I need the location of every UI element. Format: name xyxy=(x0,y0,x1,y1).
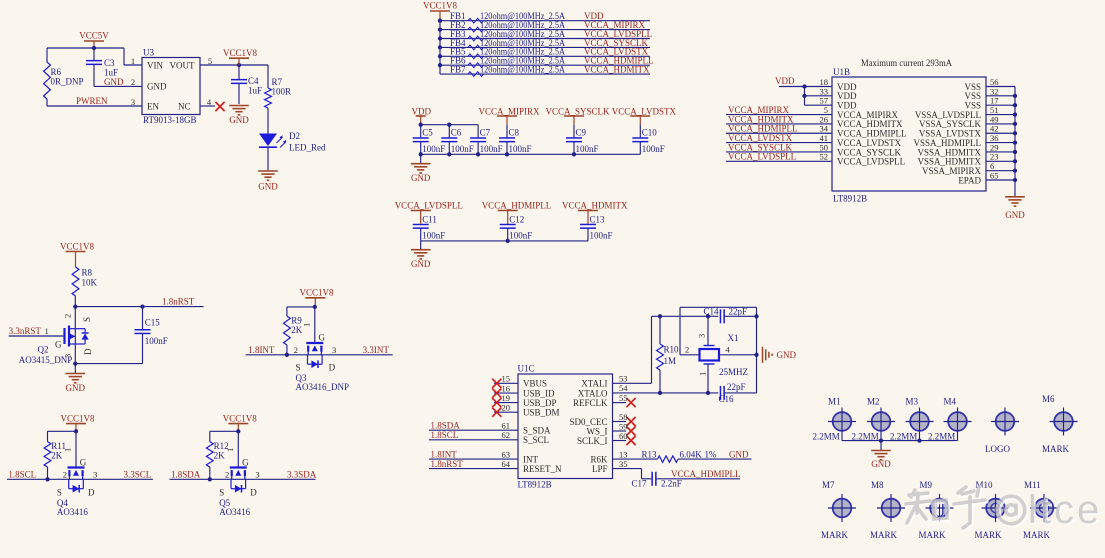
svg-text:G: G xyxy=(55,340,62,350)
resistor R7 xyxy=(267,65,269,88)
capacitor C12 100nF xyxy=(500,224,516,228)
svg-text:1.8SCL: 1.8SCL xyxy=(431,430,459,440)
crystal X1 25MHZ xyxy=(707,316,709,345)
wire net 3.3SCL xyxy=(83,478,153,480)
svg-text:S: S xyxy=(57,488,62,498)
pin 16 USB_ID no-connect xyxy=(494,392,518,394)
svg-text:GND: GND xyxy=(411,259,431,269)
svg-text:C4: C4 xyxy=(248,76,259,86)
svg-text:5: 5 xyxy=(208,56,212,66)
svg-text:53: 53 xyxy=(619,374,628,384)
svg-text:C15: C15 xyxy=(145,317,161,327)
capacitor C17 2.2nF on LPF xyxy=(613,468,642,470)
wire mounting hole ground tie xyxy=(842,440,958,442)
capacitor C16 22pF xyxy=(720,386,724,400)
svg-text:Maximum current 293mA: Maximum current 293mA xyxy=(861,59,952,69)
svg-text:VCC1V8: VCC1V8 xyxy=(223,413,258,423)
svg-text:VCC1V8: VCC1V8 xyxy=(223,48,258,58)
fiducial M6 MARK xyxy=(1054,412,1073,431)
svg-text:C13: C13 xyxy=(590,214,606,224)
svg-text:M4: M4 xyxy=(944,397,957,407)
svg-text:D: D xyxy=(329,363,336,373)
svg-text:LED_Red: LED_Red xyxy=(289,143,326,153)
svg-text:LPF: LPF xyxy=(592,464,608,474)
svg-text:22pF: 22pF xyxy=(729,307,748,317)
svg-text:M9: M9 xyxy=(920,480,933,490)
ground under Q2 xyxy=(74,364,76,374)
svg-text:R6K: R6K xyxy=(590,454,608,464)
svg-text:VCCA_SYSCLK: VCCA_SYSCLK xyxy=(546,107,611,117)
power port VCC1V8 over R8 xyxy=(60,241,95,251)
capacitor C8 100nF xyxy=(499,138,515,142)
svg-text:C7: C7 xyxy=(480,127,491,137)
svg-text:2: 2 xyxy=(225,470,229,480)
wire net 1.8SDA to U1C pin 61 xyxy=(429,429,518,431)
power port VDD over C5 xyxy=(412,107,432,117)
ground under C4 xyxy=(229,106,249,126)
power port VCCA_MIPIRX xyxy=(479,107,541,117)
ground row2 xyxy=(420,241,422,250)
svg-text:G: G xyxy=(242,457,249,467)
svg-text:54: 54 xyxy=(619,383,628,393)
svg-text:MARK: MARK xyxy=(919,530,947,540)
svg-text:VCCA_LVDSPLL: VCCA_LVDSPLL xyxy=(728,152,796,162)
wire stem C7 xyxy=(477,125,479,138)
wire stem C6 xyxy=(448,125,450,138)
ferrite bead FB1 row xyxy=(440,20,650,22)
svg-text:15: 15 xyxy=(502,374,511,384)
svg-text:2.2nF: 2.2nF xyxy=(661,479,682,489)
svg-text:AO3416: AO3416 xyxy=(57,507,88,517)
ground under D2 xyxy=(258,171,278,192)
wire bottom rail row1 xyxy=(421,153,641,155)
svg-text:S: S xyxy=(82,317,92,322)
resistor R11 2K xyxy=(44,442,51,467)
op-amp U3 RT9013-18GB body xyxy=(142,58,200,115)
svg-text:2K: 2K xyxy=(51,451,63,461)
svg-text:USB_DM: USB_DM xyxy=(523,408,560,418)
svg-text:100nF: 100nF xyxy=(422,231,445,241)
svg-text:MARK: MARK xyxy=(975,530,1003,540)
mounting hole M2 2.2MM xyxy=(872,412,891,431)
svg-text:M6: M6 xyxy=(1042,394,1055,404)
svg-text:S: S xyxy=(296,363,301,373)
svg-text:GND: GND xyxy=(777,350,797,360)
svg-text:3: 3 xyxy=(697,334,707,338)
svg-text:C5: C5 xyxy=(422,127,433,137)
svg-text:2.2MM: 2.2MM xyxy=(813,432,840,442)
svg-text:3.3nRST: 3.3nRST xyxy=(9,326,42,336)
pin 58 no-connect xyxy=(613,421,627,423)
svg-text:R8: R8 xyxy=(82,268,93,278)
svg-text:100nF: 100nF xyxy=(576,144,599,154)
fiducial M8 MARK xyxy=(882,499,901,518)
IC U1B LT8912B body xyxy=(832,77,986,191)
svg-text:Q2: Q2 xyxy=(38,345,49,355)
svg-text:GND: GND xyxy=(1005,210,1025,220)
svg-text:VIN: VIN xyxy=(147,60,163,70)
svg-text:GND: GND xyxy=(147,82,167,92)
svg-text:3: 3 xyxy=(255,470,259,480)
power port VCCA_LVDSPLL xyxy=(395,201,463,211)
svg-text:VBUS: VBUS xyxy=(523,379,547,389)
svg-text:2K: 2K xyxy=(214,451,226,461)
svg-text:100nF: 100nF xyxy=(642,144,665,154)
svg-text:AO3416: AO3416 xyxy=(219,507,250,517)
ferrite bead FB4 row xyxy=(440,46,650,48)
svg-text:USB_DP: USB_DP xyxy=(523,398,557,408)
svg-text:VCCA_LVDSPLL: VCCA_LVDSPLL xyxy=(395,201,463,211)
wire bottom rail row2 xyxy=(421,240,588,242)
pin 15 VBUS no-connect xyxy=(494,382,518,384)
capacitor C11 100nF xyxy=(413,224,429,228)
svg-text:2.2MM: 2.2MM xyxy=(928,432,955,442)
capacitor C15 100nF xyxy=(142,307,144,330)
svg-text:M1: M1 xyxy=(828,397,841,407)
svg-text:EN: EN xyxy=(147,102,159,112)
pin 60 no-connect xyxy=(613,440,627,442)
svg-text:AO3416_DNP: AO3416_DNP xyxy=(296,382,350,392)
svg-text:65: 65 xyxy=(990,170,999,180)
wire net 1.8SCL to U1C pin 62 xyxy=(429,439,518,441)
resistor R13 6.04K xyxy=(613,458,658,460)
svg-text:C6: C6 xyxy=(451,127,462,137)
power port VCC1V8 over Q4 xyxy=(61,413,96,423)
svg-text:S_SCL: S_SCL xyxy=(523,435,549,445)
svg-text:GND: GND xyxy=(871,459,891,469)
svg-text:C8: C8 xyxy=(509,127,520,137)
mounting hole M3 2.2MM xyxy=(910,412,929,431)
svg-text:GND: GND xyxy=(104,77,124,87)
svg-text:C12: C12 xyxy=(509,214,524,224)
svg-text:35: 35 xyxy=(619,459,628,469)
svg-text:C14: C14 xyxy=(703,307,719,317)
wire VCC1V8 to R11 and Q4 gate xyxy=(74,429,78,433)
svg-text:C16: C16 xyxy=(719,394,735,404)
svg-text:100nF: 100nF xyxy=(422,144,445,154)
IC U1C LT8912B body xyxy=(518,374,613,479)
svg-text:100nF: 100nF xyxy=(451,144,474,154)
svg-text:AO3415_DNP: AO3415_DNP xyxy=(19,355,73,365)
svg-text:3: 3 xyxy=(131,97,135,107)
svg-text:13: 13 xyxy=(619,449,628,459)
ground mounting holes xyxy=(880,441,882,451)
power port VCCA_SYSCLK xyxy=(546,107,611,117)
svg-text:C9: C9 xyxy=(576,127,587,137)
svg-text:VCCA_HDMITX: VCCA_HDMITX xyxy=(584,65,650,75)
svg-text:INT: INT xyxy=(523,454,538,464)
power port VCC1V8 over Q3 xyxy=(300,288,335,298)
wire net VCC1V8 from VOUT xyxy=(200,64,268,66)
svg-text:S: S xyxy=(219,488,224,498)
svg-text:2: 2 xyxy=(63,470,67,480)
svg-text:64: 64 xyxy=(502,459,511,469)
svg-text:R13: R13 xyxy=(642,449,658,459)
capacitor C4 xyxy=(238,65,240,80)
capacitor C6 100nF xyxy=(441,138,457,142)
svg-text:GND: GND xyxy=(258,182,278,192)
power port VCCA_HDMITX xyxy=(562,201,628,211)
ferrite bead FB7 row xyxy=(440,73,650,75)
resistor R12 2K xyxy=(206,442,213,467)
svg-text:RESET_N: RESET_N xyxy=(523,464,562,474)
svg-text:XTALO: XTALO xyxy=(578,388,608,398)
capacitor C13 100nF xyxy=(580,224,596,228)
svg-text:U1B: U1B xyxy=(833,67,850,77)
svg-text:ltce: ltce xyxy=(1028,488,1102,532)
svg-text:22pF: 22pF xyxy=(727,382,746,392)
wire net 1.8nRST xyxy=(75,306,203,308)
svg-text:62: 62 xyxy=(502,430,511,440)
svg-text:EPAD: EPAD xyxy=(958,175,981,185)
fiducial M7 MARK xyxy=(833,499,852,518)
svg-text:VDD: VDD xyxy=(775,76,795,86)
wire net 3.3SDA xyxy=(245,478,316,480)
svg-text:120ohm@100MHz_2.5A: 120ohm@100MHz_2.5A xyxy=(480,65,565,75)
mounting hole M1 2.2MM xyxy=(833,412,852,431)
transistor Q5 AO3416 (NMOS) xyxy=(230,468,247,493)
mounting hole M4 2.2MM xyxy=(948,412,967,431)
svg-text:1M: 1M xyxy=(664,356,677,366)
ferrite bead FB3 row xyxy=(440,38,650,40)
wire VCC1V8 to R9 and Q3 gate xyxy=(313,305,317,309)
svg-text:PWREN: PWREN xyxy=(76,96,108,106)
power port VCC5V xyxy=(79,31,109,42)
svg-text:2: 2 xyxy=(294,345,298,355)
svg-text:VCC1V8: VCC1V8 xyxy=(423,1,458,11)
svg-text:1%: 1% xyxy=(705,449,718,459)
svg-text:1: 1 xyxy=(63,448,73,452)
capacitor C14 22pF xyxy=(720,309,724,323)
svg-text:0R_DNP: 0R_DNP xyxy=(51,77,84,87)
svg-text:REFCLK: REFCLK xyxy=(573,398,608,408)
svg-text:D: D xyxy=(250,488,257,498)
svg-text:D: D xyxy=(88,488,95,498)
LED D2 xyxy=(259,134,277,147)
resistor R6 xyxy=(44,62,51,99)
power port VCC1V8 xyxy=(223,48,258,58)
wire net 1.8nRST to U1C pin 64 xyxy=(429,468,518,470)
svg-text:D: D xyxy=(83,348,93,355)
svg-text:55: 55 xyxy=(619,393,628,403)
svg-text:MARK: MARK xyxy=(821,530,849,540)
fiducial LOGO xyxy=(996,412,1015,431)
svg-text:GND: GND xyxy=(729,449,749,459)
ferrite bead FB6 row xyxy=(440,64,650,66)
svg-text:X1: X1 xyxy=(728,333,739,343)
fiducial M10 MARK xyxy=(986,499,1005,518)
svg-text:VCCA_LVDSPLL: VCCA_LVDSPLL xyxy=(837,157,905,167)
svg-text:S_SDA: S_SDA xyxy=(523,426,551,436)
svg-text:WS_I: WS_I xyxy=(587,426,608,436)
pin 55 REFCLK no-connect xyxy=(613,402,627,404)
svg-text:2: 2 xyxy=(685,345,689,355)
svg-text:XTALI: XTALI xyxy=(581,379,607,389)
svg-text:2: 2 xyxy=(63,314,73,318)
resistor R9 2K xyxy=(284,316,291,345)
capacitor C3 xyxy=(86,61,102,65)
svg-text:R6: R6 xyxy=(51,67,62,77)
svg-text:SD0_CEC: SD0_CEC xyxy=(569,417,607,427)
svg-text:2.2MM: 2.2MM xyxy=(890,432,917,442)
wire VCC1V8 to R12 and Q5 gate xyxy=(236,429,240,433)
svg-text:6.04K: 6.04K xyxy=(680,449,703,459)
svg-text:52: 52 xyxy=(820,152,829,162)
svg-text:1.8INT: 1.8INT xyxy=(248,345,275,355)
svg-text:58: 58 xyxy=(619,412,628,422)
svg-text:LT8912B: LT8912B xyxy=(833,194,867,204)
wire net 1.8SCL xyxy=(7,478,69,480)
svg-text:1.8nRST: 1.8nRST xyxy=(431,459,464,469)
svg-text:3.3INT: 3.3INT xyxy=(363,345,390,355)
wire net 1.8INT to U1C pin 63 xyxy=(429,458,518,460)
svg-text:63: 63 xyxy=(502,450,511,460)
svg-text:3: 3 xyxy=(332,345,336,355)
svg-text:VCC5V: VCC5V xyxy=(79,31,109,41)
svg-text:1: 1 xyxy=(225,448,235,452)
wire net VCCA_HDMITX to U1B xyxy=(726,123,832,125)
svg-text:GND: GND xyxy=(411,173,431,183)
wire net 3.3nRST to Q2 gate xyxy=(9,335,65,337)
svg-text:SCLK_I: SCLK_I xyxy=(577,436,608,446)
svg-text:1.8INT: 1.8INT xyxy=(431,450,458,460)
svg-text:C3: C3 xyxy=(104,58,115,68)
wire net VCCA_SYSCLK to U1B xyxy=(726,151,832,153)
wire net XTALO xyxy=(613,392,719,394)
svg-text:G: G xyxy=(80,457,87,467)
ferrite bead FB2 row xyxy=(440,29,650,31)
svg-text:100nF: 100nF xyxy=(145,336,168,346)
svg-text:1: 1 xyxy=(131,56,135,66)
svg-text:C11: C11 xyxy=(422,214,437,224)
power port VCC1V8 over Q5 xyxy=(223,413,258,423)
wire net VCCA_LVDSPLL to U1B xyxy=(726,160,832,162)
svg-text:10K: 10K xyxy=(82,278,98,288)
svg-text:1: 1 xyxy=(698,372,708,376)
wire net 1.8SDA xyxy=(170,478,232,480)
svg-text:VOUT: VOUT xyxy=(170,60,195,70)
svg-text:GND: GND xyxy=(229,115,249,125)
svg-text:1.8SCL: 1.8SCL xyxy=(8,470,36,480)
svg-text:C10: C10 xyxy=(642,127,658,137)
svg-text:MARK: MARK xyxy=(870,530,898,540)
svg-text:M8: M8 xyxy=(871,480,884,490)
svg-text:25MHZ: 25MHZ xyxy=(719,367,748,377)
svg-text:NC: NC xyxy=(178,102,191,112)
resistor R8 10K xyxy=(72,267,79,296)
capacitor C7 100nF xyxy=(470,138,486,142)
svg-text:100R: 100R xyxy=(272,87,292,97)
svg-text:G: G xyxy=(319,333,326,343)
svg-text:100nF: 100nF xyxy=(509,144,532,154)
power port VCCA_HDMIPLL xyxy=(482,201,552,211)
svg-text:GND: GND xyxy=(66,383,86,393)
vertical wire bead bus xyxy=(439,21,441,74)
ground U1B VSS xyxy=(1005,197,1025,220)
watermark zhihu @ltce xyxy=(906,487,1104,534)
wire net PWREN xyxy=(46,99,48,106)
ground right of crystal xyxy=(763,347,797,363)
svg-text:MARK: MARK xyxy=(1042,444,1070,454)
svg-text:M2: M2 xyxy=(867,397,880,407)
svg-text:1.8nRST: 1.8nRST xyxy=(162,297,195,307)
svg-text:100nF: 100nF xyxy=(509,231,532,241)
transistor Q4 AO3416 (NMOS) xyxy=(68,468,85,493)
svg-text:R10: R10 xyxy=(664,345,680,355)
svg-text:VCC1V8: VCC1V8 xyxy=(60,241,95,251)
svg-text:59: 59 xyxy=(619,421,628,431)
svg-text:VCC1V8: VCC1V8 xyxy=(300,288,335,298)
svg-text:3: 3 xyxy=(93,470,97,480)
svg-text:20: 20 xyxy=(502,403,511,413)
svg-text:100nF: 100nF xyxy=(590,231,613,241)
capacitor C9 100nF xyxy=(566,138,582,142)
wire net VCCA_MIPIRX to U1B xyxy=(726,114,832,116)
svg-text:19: 19 xyxy=(502,393,511,403)
wire C3 to GND pin 2 xyxy=(94,85,142,87)
svg-text:1: 1 xyxy=(45,326,49,336)
svg-text:VDD: VDD xyxy=(412,107,432,117)
pin NC no-connect X xyxy=(200,105,215,107)
capacitor C5 100nF xyxy=(413,138,429,142)
power port VCCA_LVDSTX xyxy=(612,107,677,117)
wire net VCCA_LVDSTX to U1B xyxy=(726,142,832,144)
svg-text:USB_ID: USB_ID xyxy=(523,388,555,398)
svg-text:1.8SDA: 1.8SDA xyxy=(431,421,461,431)
svg-text:VCCA_HDMIPLL: VCCA_HDMIPLL xyxy=(482,201,552,211)
svg-text:3.3SCL: 3.3SCL xyxy=(124,470,152,480)
wire LED to ground xyxy=(267,147,269,171)
wire top rail C5-C7 xyxy=(421,124,478,126)
wire net XTALI xyxy=(613,382,652,384)
svg-text:VCC1V8: VCC1V8 xyxy=(61,413,96,423)
svg-text:3.3SDA: 3.3SDA xyxy=(287,470,317,480)
svg-text:M3: M3 xyxy=(906,397,919,407)
svg-text:FB7: FB7 xyxy=(450,65,466,75)
transistor Q2 AO3415_DNP (PMOS) xyxy=(63,328,65,344)
svg-text:LT8912B: LT8912B xyxy=(518,479,552,489)
svg-text:VCCA_MIPIRX: VCCA_MIPIRX xyxy=(479,107,541,117)
svg-text:D2: D2 xyxy=(289,131,300,141)
svg-text:1.8SDA: 1.8SDA xyxy=(171,470,201,480)
svg-text:100nF: 100nF xyxy=(480,144,503,154)
svg-text:U3: U3 xyxy=(143,48,154,58)
svg-text:R7: R7 xyxy=(272,77,283,87)
svg-text:1uF: 1uF xyxy=(248,86,262,96)
transistor Q3 AO3416_DNP (NMOS) xyxy=(306,343,323,368)
ground row1 xyxy=(420,154,422,163)
ferrite bead FB5 row xyxy=(440,55,650,57)
svg-text:2: 2 xyxy=(131,77,135,87)
svg-text:16: 16 xyxy=(502,384,511,394)
wire net VCC5V xyxy=(47,47,124,49)
power port VCC1V8 feeding beads xyxy=(423,1,458,11)
svg-text:60: 60 xyxy=(619,431,628,441)
wire crystal ground bus xyxy=(756,307,758,393)
svg-text:61: 61 xyxy=(502,421,511,431)
fiducial M11 MARK xyxy=(1035,499,1054,518)
svg-text:1: 1 xyxy=(301,323,311,327)
wire stem C5 xyxy=(420,125,422,138)
wire net 3.3INT xyxy=(321,354,392,356)
resistor R10 1M xyxy=(659,316,661,344)
svg-text:LOGO: LOGO xyxy=(985,444,1010,454)
svg-text:VCCA_LVDSTX: VCCA_LVDSTX xyxy=(612,107,677,117)
svg-text:VCCA_HDMIPLL: VCCA_HDMIPLL xyxy=(671,469,741,479)
wire net 1.8INT xyxy=(246,354,309,356)
svg-text:RT9013-18GB: RT9013-18GB xyxy=(143,115,196,125)
svg-text:2.2MM: 2.2MM xyxy=(852,432,879,442)
